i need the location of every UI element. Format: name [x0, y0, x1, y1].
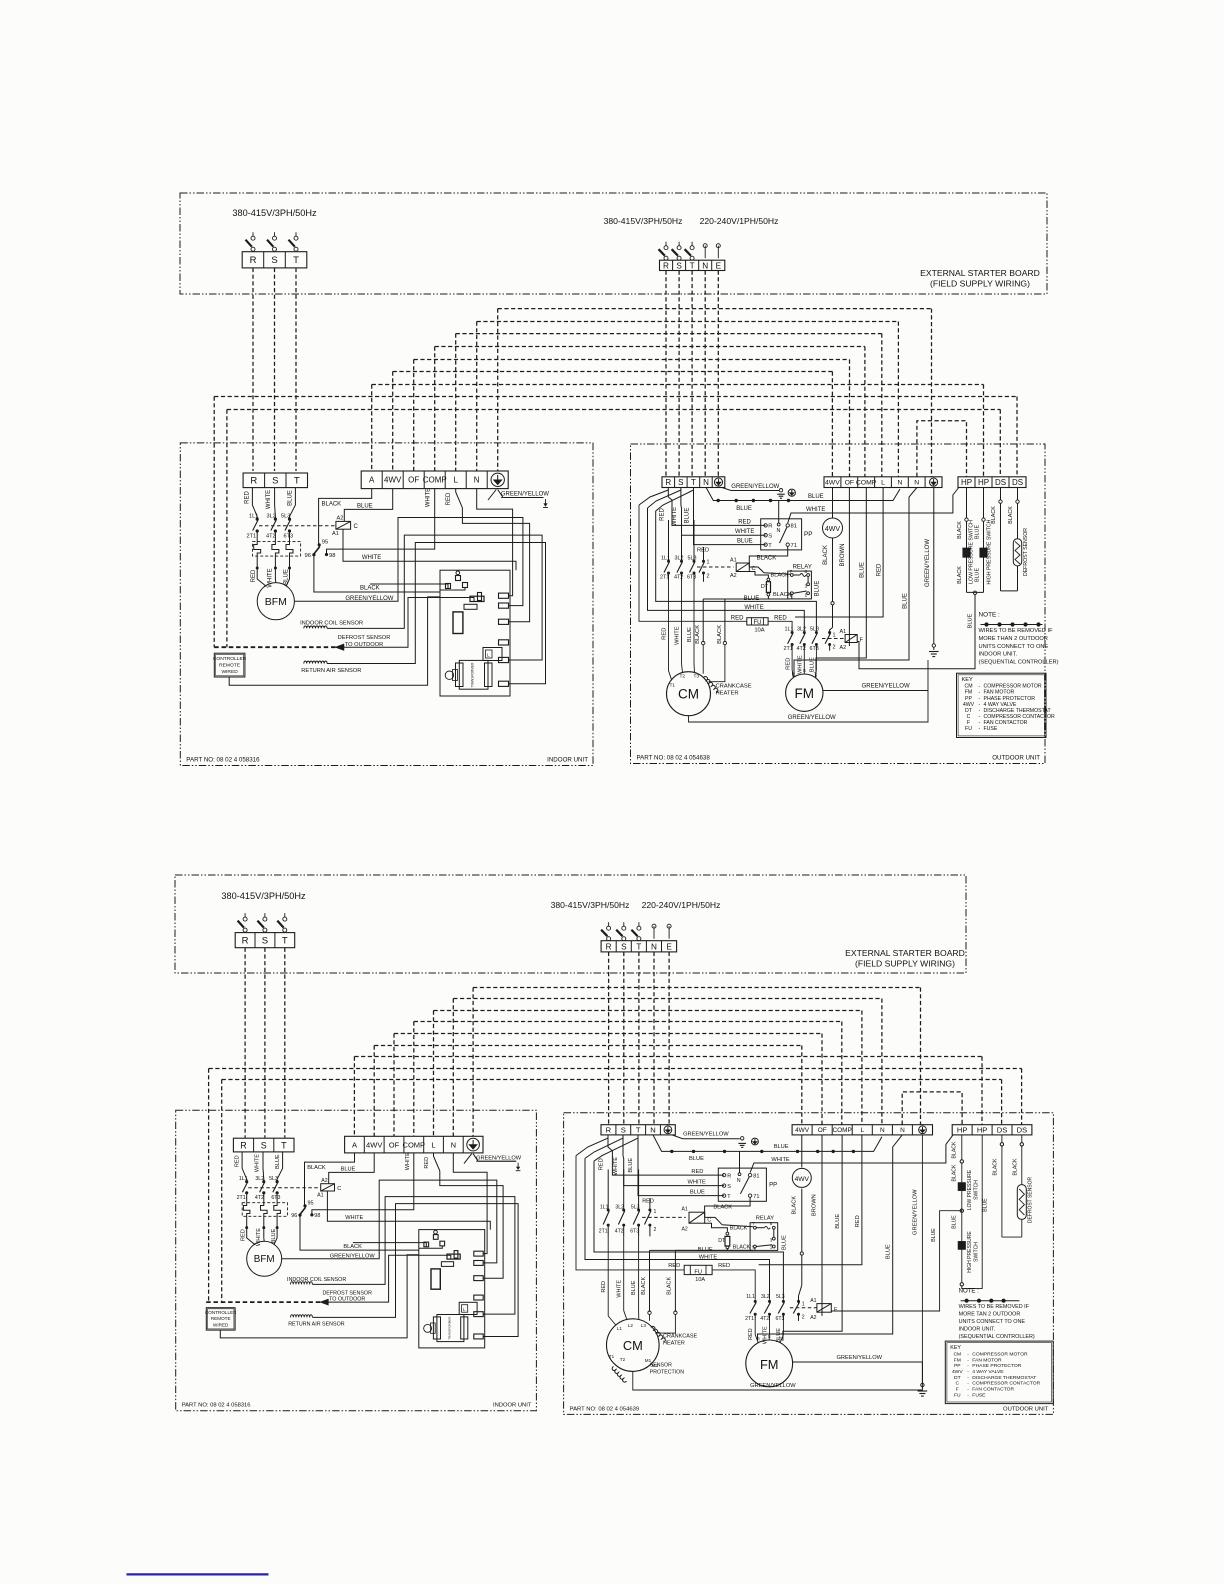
svg-text:5L3: 5L3 [776, 1294, 785, 1300]
wires to PP U2 [608, 1135, 724, 1175]
svg-text:COMPRESSOR MOTOR: COMPRESSOR MOTOR [972, 1352, 1028, 1358]
switch R S T N E (unit 2) [608, 922, 610, 926]
svg-text:FUSE: FUSE [972, 1392, 986, 1398]
svg-text:BLACK: BLACK [733, 1245, 751, 1251]
wire N U1 [477, 489, 513, 596]
svg-text:INDOOR UNIT.: INDOOR UNIT. [959, 1327, 996, 1333]
wire L red U1 [456, 489, 530, 622]
svg-text:S: S [261, 1140, 267, 1150]
svg-text:-: - [979, 690, 981, 696]
wire N2 U1 [794, 488, 917, 678]
svg-text:BLUE: BLUE [341, 1167, 356, 1173]
svg-text:COMP: COMP [423, 476, 447, 485]
svg-text:BLUE: BLUE [903, 593, 909, 609]
svg-text:S: S [678, 478, 683, 487]
svg-text:HP: HP [961, 478, 972, 487]
svg-text:R: R [665, 478, 671, 487]
wires overload to BFM U2 [247, 1228, 256, 1245]
pcb stub wires U2 [353, 1243, 426, 1247]
wire ps blue U1 [857, 595, 975, 669]
wire coil to relay U2 [705, 1217, 754, 1226]
svg-text:RED: RED [598, 1158, 604, 1170]
svg-text:R: R [606, 1126, 612, 1135]
svg-text:WHITE: WHITE [798, 655, 804, 674]
svg-text:BLACK: BLACK [773, 592, 792, 598]
PCB board U2 [419, 1230, 485, 1348]
svg-text:REMOTE: REMOTE [211, 1316, 231, 1321]
svg-text:GREEN/YELLOW: GREEN/YELLOW [750, 1383, 796, 1389]
wires R S T to contactor U1 [252, 488, 257, 519]
wire 4WV down U2 [801, 1189, 803, 1253]
contactor F link U2 [790, 1307, 817, 1309]
svg-text:NOTE :: NOTE : [979, 612, 1001, 619]
svg-text:FAN CONTACTOR: FAN CONTACTOR [984, 720, 1028, 726]
svg-text:T3: T3 [694, 674, 700, 680]
svg-text:HP: HP [957, 1126, 968, 1135]
svg-text:HP: HP [978, 478, 989, 487]
svg-text:6T3: 6T3 [687, 575, 696, 581]
crankcase heater coil U1 [704, 677, 718, 693]
svg-text:RED: RED [642, 1199, 654, 1205]
relay box U2 [750, 1223, 778, 1251]
svg-text:BLUE: BLUE [774, 1144, 789, 1150]
svg-text:BROWN: BROWN [840, 544, 846, 567]
svg-text:8: 8 [805, 569, 808, 575]
wire 81 white U1 [788, 488, 959, 524]
svg-text:BLUE: BLUE [698, 1247, 713, 1253]
external starter board box (unit 2) [175, 875, 966, 973]
svg-text:BLACK: BLACK [1012, 1158, 1018, 1176]
svg-text:C: C [337, 1186, 341, 1192]
terminal strip R S T N E (unit 2) [601, 941, 677, 952]
key legend box U1 [957, 673, 1047, 737]
svg-text:BROWN: BROWN [812, 1194, 818, 1216]
fuse FU U2 [684, 1265, 712, 1274]
wire earth down U2 [921, 1135, 923, 1383]
svg-text:DT: DT [761, 584, 769, 590]
svg-text:TO OUTDOOR: TO OUTDOOR [345, 642, 383, 648]
wire 71 black U1 [749, 546, 787, 567]
wire red fuse U2 [576, 1156, 684, 1270]
svg-text:CRANKCASE: CRANKCASE [716, 684, 752, 690]
svg-text:C: C [354, 524, 359, 530]
PP contacts U2 [722, 1173, 725, 1176]
wire earth down U1 [933, 488, 935, 644]
svg-text:A2: A2 [810, 1315, 816, 1321]
svg-text:WIRES TO BE REMOVED IF: WIRES TO BE REMOVED IF [959, 1304, 1030, 1310]
svg-text:A2: A2 [730, 573, 737, 579]
svg-text:RELAY: RELAY [793, 565, 812, 571]
svg-text:BLUE: BLUE [835, 1214, 841, 1229]
svg-text:3L2: 3L2 [255, 1176, 264, 1182]
svg-text:N: N [897, 480, 902, 487]
wires F to FM U2 [755, 1321, 758, 1343]
svg-text:BLACK: BLACK [667, 1276, 673, 1294]
contactor coil C U2 [321, 1184, 335, 1191]
terminal strip R S T (unit 1) [242, 252, 307, 268]
svg-text:GREEN/YELLOW: GREEN/YELLOW [912, 1189, 918, 1235]
svg-text:(SEQUENTIAL CONTROLLER): (SEQUENTIAL CONTROLLER) [959, 1334, 1035, 1340]
svg-text:RED: RED [668, 1263, 680, 1269]
svg-text:A2: A2 [682, 1226, 688, 1232]
svg-text:1: 1 [707, 560, 710, 566]
external starter board box (unit 1) [180, 193, 1047, 294]
svg-text:BLUE: BLUE [737, 539, 753, 545]
svg-text:A2: A2 [840, 645, 847, 651]
supply drops R S T N E to outdoor (unit 1) [665, 271, 667, 477]
svg-text:RED: RED [662, 628, 668, 640]
compressor contactor C poles U1 [668, 520, 670, 561]
wire 96 black U1 [314, 556, 440, 593]
wire white F U2 [585, 1158, 770, 1299]
wire ps blue U2 [831, 1211, 962, 1312]
svg-text:C: C [956, 1381, 960, 1387]
low/high pressure switches U2 [961, 1135, 963, 1160]
svg-text:6T3: 6T3 [284, 534, 294, 540]
svg-text:A1: A1 [317, 1193, 324, 1199]
svg-text:BLUE: BLUE [810, 657, 816, 672]
svg-text:5L3: 5L3 [810, 627, 819, 633]
svg-text:BLACK: BLACK [757, 556, 777, 562]
svg-text:S: S [768, 534, 772, 540]
indoor unit box U2 [176, 1110, 537, 1411]
svg-text:WIRED: WIRED [213, 1322, 229, 1327]
svg-text:4WV: 4WV [795, 1176, 810, 1183]
svg-text:81: 81 [791, 524, 797, 530]
svg-text:R: R [240, 1140, 247, 1150]
svg-text:BLACK: BLACK [1008, 506, 1014, 524]
svg-text:RETURN AIR SENSOR: RETURN AIR SENSOR [301, 668, 361, 674]
discharge thermostat DT U1 [766, 582, 770, 593]
svg-text:4WV: 4WV [366, 1140, 382, 1149]
crankcase heater wires U2 [648, 1311, 651, 1314]
fan contactor F poles U1 [791, 632, 793, 634]
svg-text:T: T [282, 936, 288, 947]
wire red fuse U1 [639, 505, 747, 621]
svg-text:BLUE: BLUE [886, 1244, 892, 1259]
phase protector PP box U2 [718, 1168, 766, 1201]
PCB components U1 [453, 612, 463, 634]
wire FM green-yellow U1 [823, 660, 928, 691]
svg-text:FAN MOTOR: FAN MOTOR [984, 690, 1015, 696]
svg-text:R: R [242, 936, 249, 947]
svg-text:WIRED: WIRED [221, 669, 238, 675]
outdoor strip HP HP DS DS U2 [952, 1125, 1032, 1135]
svg-text:A1: A1 [810, 1298, 816, 1304]
svg-text:EXTERNAL STARTER BOARD: EXTERNAL STARTER BOARD [845, 948, 965, 958]
outdoor unit box U1 [631, 444, 1046, 764]
wire L down U2 [759, 1135, 862, 1265]
svg-text:2: 2 [833, 645, 836, 651]
wire dt relay U2 [705, 1223, 728, 1232]
svg-text:INDOOR UNIT.: INDOOR UNIT. [979, 652, 1018, 658]
svg-text:S: S [272, 476, 278, 487]
pcb stub wires U1 [370, 584, 448, 589]
svg-text:R: R [768, 524, 772, 530]
svg-text:TRANSFORMER: TRANSFORMER [471, 662, 475, 687]
contactor F coil U2 [817, 1304, 831, 1313]
svg-text:1L1: 1L1 [661, 556, 670, 562]
svg-text:SWITCH: SWITCH [974, 1242, 980, 1262]
svg-text:T: T [768, 543, 772, 549]
contactor coil C U1 [336, 521, 351, 529]
motor FM U2 [746, 1340, 793, 1387]
wire L red U2 [434, 1153, 504, 1278]
svg-text:S: S [621, 1126, 626, 1135]
defrost sensor DS U1 [1000, 488, 1002, 500]
indoor terminal strip A 4WV OF COMP L N earth U2 [345, 1136, 483, 1153]
wire N-HP link (unit 1) [917, 421, 967, 477]
svg-text:HP: HP [977, 1126, 988, 1135]
svg-text:PP: PP [954, 1363, 961, 1369]
svg-text:BLUE: BLUE [690, 1190, 705, 1196]
svg-text:T: T [294, 476, 300, 487]
svg-text:6T3: 6T3 [271, 1195, 280, 1201]
svg-text:RED: RED [691, 1169, 703, 1175]
wire coil white U2 [327, 1191, 490, 1230]
svg-text:380-415V/3PH/50Hz: 380-415V/3PH/50Hz [221, 891, 306, 901]
svg-text:FU: FU [754, 620, 762, 626]
svg-text:GREEN/YELLOW: GREEN/YELLOW [476, 1155, 522, 1161]
svg-text:WHITE: WHITE [405, 1152, 411, 1170]
svg-text:BLUE: BLUE [931, 1228, 937, 1242]
svg-text:DS: DS [997, 1126, 1008, 1135]
contactor C link U2 [642, 1216, 686, 1218]
svg-text:N: N [703, 478, 709, 487]
svg-text:4WV: 4WV [825, 526, 841, 533]
motor CM U2 [607, 1319, 660, 1372]
outdoor strip 4WV OF COMP L N N earth U2 [792, 1125, 932, 1135]
svg-text:BLACK: BLACK [717, 625, 723, 644]
wire BFM green-yellow U1 [294, 518, 523, 606]
indoor terminal strip A 4WV OF COMP L N earth U1 [361, 471, 508, 489]
wire 4WV to coil U2 [329, 1153, 375, 1184]
svg-text:GREEN/YELLOW: GREEN/YELLOW [788, 715, 836, 721]
svg-text:COMP: COMP [403, 1140, 426, 1149]
svg-text:OUTDOOR UNIT: OUTDOOR UNIT [1003, 1406, 1049, 1412]
svg-text:BLACK: BLACK [792, 1196, 798, 1215]
svg-text:4WV: 4WV [963, 702, 975, 708]
wires contactor to CM U2 [608, 1236, 616, 1325]
svg-text:T: T [293, 255, 299, 266]
svg-text:2T1: 2T1 [247, 534, 257, 540]
svg-text:F: F [956, 1387, 959, 1393]
svg-text:RED: RED [235, 1155, 241, 1167]
svg-text:CM: CM [678, 687, 699, 702]
svg-text:INDOOR COIL SENSOR: INDOOR COIL SENSOR [287, 1277, 346, 1283]
motor CM U1 [667, 672, 711, 716]
svg-text:R: R [250, 476, 257, 487]
overload relay U2 [242, 1203, 287, 1217]
svg-text:GREEN/YELLOW: GREEN/YELLOW [330, 1254, 376, 1260]
svg-text:BLACK: BLACK [991, 506, 997, 524]
crankcase heater coil U2 [651, 1326, 665, 1342]
svg-text:3L2: 3L2 [615, 1205, 624, 1211]
svg-text:BLACK: BLACK [713, 1205, 732, 1211]
contactor F coil U1 [845, 635, 857, 643]
wire controller U2 [220, 1255, 418, 1338]
svg-text:A1: A1 [840, 629, 847, 635]
4-way valve 4WV U2 [801, 1135, 803, 1168]
svg-text:BLUE: BLUE [983, 1198, 989, 1212]
outdoor strip HP HP DS DS U1 [958, 477, 1026, 488]
svg-text:EXTERNAL STARTER BOARD: EXTERNAL STARTER BOARD [920, 268, 1040, 278]
svg-text:WHITE: WHITE [762, 1326, 768, 1344]
svg-text:WHITE: WHITE [616, 1280, 622, 1298]
svg-text:10A: 10A [754, 627, 764, 633]
svg-text:BLACK: BLACK [343, 1244, 362, 1250]
svg-text:4T2: 4T2 [674, 575, 683, 581]
contactor link dashed U2 [248, 1187, 320, 1189]
svg-text:L1: L1 [617, 1326, 623, 1331]
svg-text:RED: RED [659, 508, 665, 521]
svg-text:4T2: 4T2 [266, 534, 276, 540]
svg-text:BLUE: BLUE [689, 1156, 704, 1162]
svg-text:OF: OF [389, 1140, 400, 1149]
PCB components U2 [431, 1269, 440, 1289]
svg-text:RED: RED [738, 519, 751, 525]
svg-text:COMP: COMP [833, 1127, 852, 1134]
svg-text:BLACK: BLACK [952, 1164, 958, 1182]
svg-text:UNITS CONNECT TO ONE: UNITS CONNECT TO ONE [979, 644, 1049, 650]
svg-text:1L1: 1L1 [600, 1205, 609, 1211]
svg-text:TO OUTDOOR: TO OUTDOOR [329, 1297, 365, 1303]
svg-text:BLACK: BLACK [695, 625, 701, 644]
svg-text:N: N [880, 1127, 885, 1134]
svg-text:RED: RED [774, 615, 787, 621]
outdoor unit box U2 [564, 1113, 1054, 1415]
svg-text:A1: A1 [332, 531, 339, 537]
wire FM green-yellow U2 [793, 1362, 923, 1383]
svg-text:T1: T1 [670, 683, 676, 689]
svg-text:RED: RED [245, 491, 251, 504]
indoor terminal strip R S T U1 [243, 473, 307, 488]
wire COMP white U1 [327, 489, 435, 555]
svg-text:WHITE: WHITE [806, 507, 825, 513]
key legend box U2 [945, 1341, 1053, 1404]
svg-text:GREEN/YELLOW: GREEN/YELLOW [345, 596, 393, 602]
svg-text:2: 2 [654, 1227, 657, 1233]
svg-text:BFM: BFM [254, 1254, 275, 1265]
wire COMP down U1 [816, 488, 866, 678]
svg-text:HIGH PRESSURE SWITCH: HIGH PRESSURE SWITCH [986, 519, 992, 584]
outdoor strip R S T N earth U2 [601, 1125, 675, 1135]
svg-text:BLUE: BLUE [975, 525, 981, 539]
svg-text:-: - [979, 726, 981, 732]
svg-text:RED: RED [855, 1215, 861, 1227]
main switch R S T (unit 1) [252, 232, 254, 236]
svg-text:PART NO: 08 02 4 054639: PART NO: 08 02 4 054639 [570, 1406, 640, 1412]
svg-text:1: 1 [654, 1209, 657, 1215]
svg-text:F: F [967, 720, 970, 726]
svg-text:PP: PP [769, 1182, 777, 1189]
svg-text:S: S [621, 942, 627, 951]
wire coil to relay U1 [749, 567, 790, 574]
svg-text:E: E [716, 261, 722, 270]
svg-text:INDOOR COIL SENSOR: INDOOR COIL SENSOR [300, 621, 363, 627]
svg-text:RED: RED [251, 569, 257, 582]
terminal strip R S T N E (unit 1) [660, 260, 725, 270]
svg-text:WHITE: WHITE [735, 529, 754, 535]
supply drops R S T to indoor (unit 2) [244, 948, 246, 1138]
wire N-HP link (unit 2) [902, 1092, 962, 1125]
svg-text:L: L [861, 1127, 865, 1134]
svg-text:KEY: KEY [962, 677, 973, 683]
svg-text:WHITE: WHITE [362, 555, 381, 561]
svg-text:WHITE: WHITE [744, 605, 763, 611]
svg-text:A: A [352, 1140, 357, 1149]
svg-text:RED: RED [697, 548, 709, 554]
svg-text:C: C [707, 1217, 711, 1223]
controller remote wired box U1 [214, 653, 245, 677]
svg-text:4 WAY VALVE: 4 WAY VALVE [972, 1369, 1004, 1375]
svg-text:98: 98 [329, 553, 335, 559]
svg-text:BLACK: BLACK [322, 502, 342, 508]
svg-text:BLUE: BLUE [860, 562, 866, 578]
svg-text:5L3: 5L3 [631, 1205, 640, 1211]
svg-text:4WV: 4WV [384, 476, 402, 485]
svg-text:RED: RED [601, 1281, 607, 1293]
svg-text:3L2: 3L2 [675, 556, 684, 562]
svg-text:BLACK: BLACK [992, 1158, 998, 1176]
svg-text:RED: RED [731, 615, 744, 621]
return air sensor U2 [291, 1315, 313, 1318]
PP contacts U1 [764, 524, 767, 527]
svg-text:A2: A2 [337, 516, 344, 522]
svg-text:DISCHARGE THERMOSTAT: DISCHARGE THERMOSTAT [972, 1375, 1036, 1381]
svg-text:GREEN/YELLOW: GREEN/YELLOW [501, 492, 549, 498]
wire bundle indoor-outdoor (unit 1) [498, 308, 932, 310]
svg-text:A: A [369, 476, 375, 485]
svg-text:T: T [636, 1126, 641, 1135]
main switch R S T (unit 2) [244, 913, 246, 917]
svg-text:OF: OF [818, 1127, 827, 1134]
outdoor strip 4WV OF COMP L N N earth U1 [824, 477, 942, 488]
svg-text:BLUE: BLUE [631, 1280, 637, 1295]
svg-text:HEATER: HEATER [716, 691, 739, 697]
overload contact 95 96 98 U2 [304, 1205, 306, 1207]
svg-text:FAN CONTACTOR: FAN CONTACTOR [972, 1387, 1014, 1393]
svg-text:FU: FU [954, 1392, 961, 1398]
svg-text:R: R [606, 942, 612, 951]
svg-text:BLUE: BLUE [744, 596, 760, 602]
svg-text:2T1: 2T1 [745, 1316, 754, 1322]
supply drops R S T N E to outdoor (unit 2) [608, 952, 610, 1125]
svg-text:(FIELD SUPPLY WIRING): (FIELD SUPPLY WIRING) [930, 279, 1030, 289]
svg-text:GREEN/YELLOW: GREEN/YELLOW [683, 1132, 729, 1138]
4-way valve 4WV U1 [832, 488, 834, 519]
contactor C coil U2 [689, 1212, 705, 1223]
terminal strip R S T (unit 2) [235, 933, 295, 948]
wire CM green-yellow U2 [633, 1362, 923, 1390]
svg-text:R: R [663, 261, 669, 270]
svg-text:CONTROLLER: CONTROLLER [213, 656, 247, 662]
wire N2 U2 [758, 1135, 903, 1341]
svg-text:BLACK: BLACK [307, 1165, 326, 1171]
wire L down U1 [795, 488, 883, 618]
svg-text:N: N [451, 1140, 456, 1149]
svg-text:(FIELD SUPPLY WIRING): (FIELD SUPPLY WIRING) [855, 959, 955, 969]
svg-text:HIGH PRESSURE: HIGH PRESSURE [967, 1231, 973, 1273]
svg-text:4T2: 4T2 [615, 1228, 624, 1234]
svg-text:BLUE: BLUE [357, 504, 373, 510]
wire blue F U2 [594, 1161, 783, 1300]
svg-text:DS: DS [995, 478, 1006, 487]
svg-text:BLUE: BLUE [782, 1235, 788, 1250]
contactor C link U1 [697, 566, 734, 568]
switch R S T N E (unit 1) [665, 242, 667, 246]
svg-text:FU: FU [965, 726, 972, 732]
